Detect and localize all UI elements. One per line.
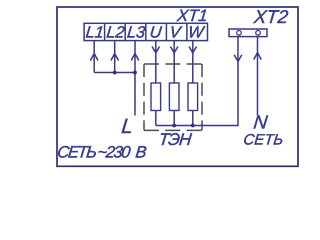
svg-text:XT1: XT1	[175, 6, 208, 25]
svg-text:СЕТЬ~230В: СЕТЬ~230В	[57, 143, 148, 162]
svg-text:L1: L1	[85, 23, 105, 41]
svg-text:ТЭН: ТЭН	[158, 130, 193, 149]
svg-text:L: L	[120, 115, 134, 138]
svg-text:U: U	[149, 23, 163, 41]
svg-text:XT2: XT2	[252, 6, 290, 27]
svg-text:L3: L3	[126, 23, 146, 41]
svg-text:СЕТЬ: СЕТЬ	[243, 131, 285, 148]
svg-text:L2: L2	[106, 23, 126, 41]
